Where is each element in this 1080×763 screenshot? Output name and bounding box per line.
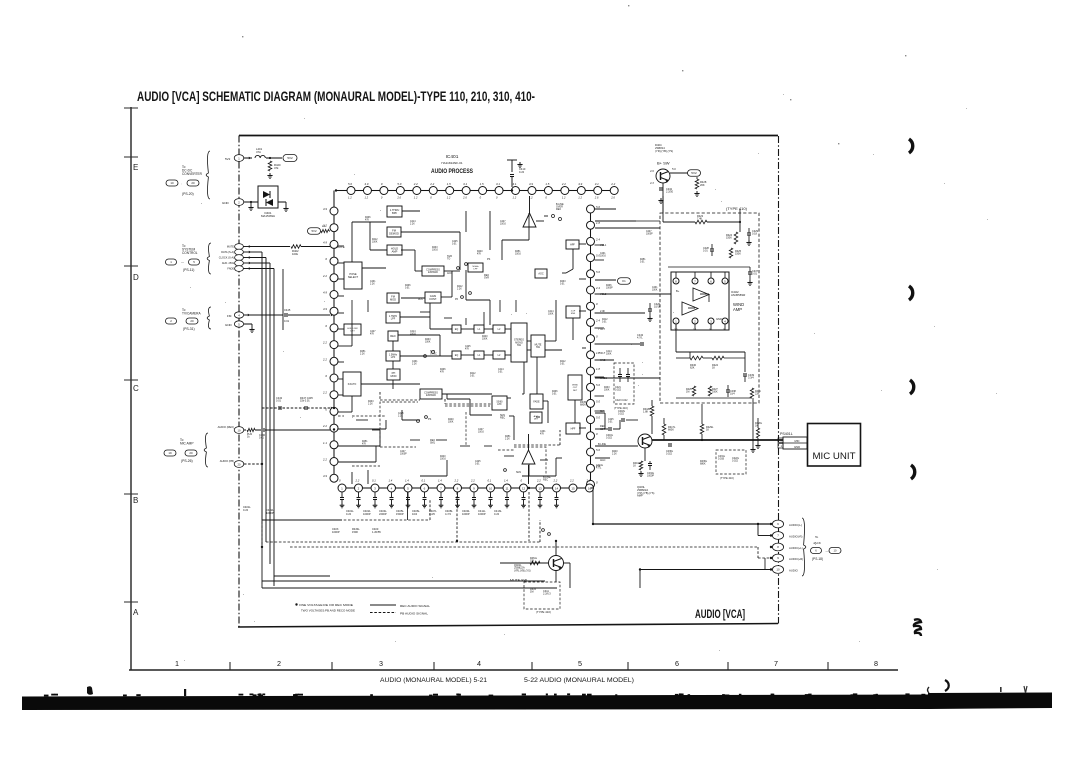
svg-text:0.22: 0.22 — [346, 512, 352, 516]
svg-text:2.2K: 2.2K — [612, 454, 617, 456]
svg-text:0: 0 — [596, 302, 598, 306]
svg-text:2.2: 2.2 — [610, 182, 615, 186]
svg-text:1: 1 — [175, 659, 179, 668]
svg-text:100K: 100K — [372, 242, 378, 244]
svg-text:1K: 1K — [706, 429, 709, 432]
svg-text:0: 0 — [596, 335, 598, 339]
svg-text:AUD. 256k: AUD. 256k — [222, 262, 235, 265]
svg-text:VCL2: VCL2 — [600, 293, 607, 296]
svg-text:5-22 AUDIO (MONAURAL MODEL): 5-22 AUDIO (MONAURAL MODEL) — [524, 677, 634, 684]
svg-text:REC AUDIO SIGNAL: REC AUDIO SIGNAL — [400, 604, 430, 608]
svg-text:TO: TO — [447, 258, 450, 261]
svg-text:150K: 150K — [352, 530, 358, 534]
svg-text:Y RLT: Y RLT — [598, 351, 606, 355]
svg-text:AGC: AGC — [538, 272, 543, 275]
svg-text:1500P: 1500P — [396, 512, 404, 516]
svg-text:1.2: 1.2 — [513, 196, 517, 200]
svg-text:10: 10 — [489, 486, 493, 490]
svg-text:DET: DET — [534, 419, 539, 421]
svg-text:0.01: 0.01 — [498, 372, 503, 374]
svg-text:2.4: 2.4 — [595, 237, 600, 241]
svg-text:680K: 680K — [700, 463, 706, 466]
svg-text:2.2K: 2.2K — [505, 439, 510, 441]
svg-text:0: 0 — [496, 196, 498, 200]
svg-text:10/4: 10/4 — [730, 393, 735, 396]
svg-text:47k: 47k — [274, 166, 279, 170]
svg-text:2.2: 2.2 — [470, 479, 475, 483]
svg-text:C422 0.022: C422 0.022 — [615, 399, 628, 402]
svg-text:AUDIO (MONAURAL MODEL) 5-21: AUDIO (MONAURAL MODEL) 5-21 — [380, 677, 487, 684]
svg-text:5V2: 5V2 — [691, 171, 697, 175]
svg-text:0.01: 0.01 — [703, 250, 708, 253]
svg-text:C: C — [133, 384, 139, 393]
svg-text:10/16: 10/16 — [478, 432, 484, 434]
svg-text:100K: 100K — [425, 342, 431, 344]
svg-text:0: 0 — [325, 374, 327, 378]
svg-text:EQ: EQ — [455, 328, 459, 331]
svg-text:AGC: AGC — [600, 459, 606, 462]
svg-text:—: — — [181, 261, 184, 265]
svg-text:150K: 150K — [726, 237, 732, 240]
svg-text:2.2: 2.2 — [322, 424, 327, 428]
svg-text:13: 13 — [538, 486, 542, 490]
svg-text:4.9: 4.9 — [578, 182, 582, 186]
svg-text:SVR: SVR — [484, 277, 489, 280]
svg-text:0.01: 0.01 — [405, 288, 410, 290]
svg-text:2.2K: 2.2K — [457, 289, 462, 291]
svg-text:47K: 47K — [465, 349, 470, 351]
svg-text:100k: 100k — [292, 252, 299, 256]
svg-text:TWO VOLTAGES:PB AND RECO MODE: TWO VOLTAGES:PB AND RECO MODE — [301, 609, 355, 613]
svg-text:4.9: 4.9 — [323, 291, 327, 295]
svg-text:0.1: 0.1 — [372, 479, 376, 483]
svg-text:MUTE: MUTE — [227, 246, 234, 249]
svg-text:5.0: 5.0 — [596, 416, 600, 420]
svg-text:IC401: IC401 — [446, 154, 459, 160]
svg-text:10/16: 10/16 — [410, 334, 416, 336]
svg-text:100K: 100K — [652, 290, 658, 292]
svg-text:47K: 47K — [365, 220, 370, 222]
svg-text:5.0: 5.0 — [596, 448, 600, 452]
svg-text:1K: 1K — [712, 367, 715, 370]
svg-text:2200P: 2200P — [379, 512, 387, 516]
svg-text:2.2: 2.2 — [413, 182, 418, 186]
svg-text:4.9: 4.9 — [364, 182, 368, 186]
svg-text:3.1: 3.1 — [463, 182, 467, 186]
svg-text:4.7/L: 4.7/L — [637, 337, 643, 340]
svg-text:4.9: 4.9 — [323, 207, 327, 211]
svg-text:FM: FM — [227, 314, 232, 318]
svg-text:1000P: 1000P — [462, 512, 470, 516]
svg-text:0: 0 — [325, 407, 327, 411]
svg-text:4: 4 — [238, 313, 240, 317]
svg-text:0.22: 0.22 — [243, 508, 249, 512]
svg-text:1.2: 1.2 — [348, 196, 352, 200]
svg-text:BPF: BPF — [392, 211, 398, 215]
svg-text:62K: 62K — [690, 367, 695, 370]
svg-text:14: 14 — [555, 486, 559, 490]
svg-text:4.7/L: 4.7/L — [596, 467, 602, 470]
svg-text:REC: REC — [543, 479, 548, 482]
svg-text:DEMOD: DEMOD — [389, 231, 399, 235]
svg-text:2.2: 2.2 — [322, 274, 327, 278]
svg-text:0: 0 — [339, 479, 341, 483]
svg-text:VCL1: VCL1 — [600, 244, 607, 247]
svg-text:P6: P6 — [455, 298, 459, 301]
svg-text:AN4558SR: AN4558SR — [731, 293, 745, 297]
svg-text:10/16: 10/16 — [600, 256, 606, 258]
svg-text:2.2K: 2.2K — [360, 354, 365, 356]
svg-text:2.2: 2.2 — [553, 479, 558, 483]
svg-text:19: 19 — [168, 451, 172, 455]
svg-text:5V2: 5V2 — [311, 229, 316, 233]
svg-text:20K: 20K — [700, 183, 705, 187]
svg-text:10/4: 10/4 — [412, 512, 418, 516]
svg-text:4.9: 4.9 — [323, 307, 327, 311]
svg-text:CONT.: CONT. — [429, 297, 437, 301]
svg-text:10/16: 10/16 — [432, 250, 438, 252]
svg-text:0.01: 0.01 — [560, 284, 565, 286]
svg-text:20: 20 — [190, 319, 194, 323]
svg-text:LPF: LPF — [391, 356, 396, 359]
svg-text:GND: GND — [794, 445, 800, 449]
svg-text:AMP: AMP — [637, 494, 643, 498]
svg-text:(TYPE 410): (TYPE 410) — [726, 206, 748, 211]
svg-text:PS: PS — [487, 258, 491, 261]
svg-text:AMP: AMP — [392, 249, 398, 253]
svg-text:0.01: 0.01 — [284, 319, 290, 323]
svg-text:4.9: 4.9 — [650, 169, 654, 173]
svg-text:DATA (S-A): DATA (S-A) — [221, 251, 234, 254]
svg-text:0.01: 0.01 — [552, 394, 557, 396]
svg-text:5V2: 5V2 — [225, 157, 231, 161]
svg-text:AUDIO: AUDIO — [789, 569, 798, 573]
svg-text:5: 5 — [578, 659, 582, 668]
svg-text:0.01: 0.01 — [608, 422, 613, 424]
svg-text:PB AUDIO SIGNAL: PB AUDIO SIGNAL — [400, 612, 428, 616]
svg-text:1.8: 1.8 — [596, 367, 600, 371]
svg-text:4: 4 — [477, 659, 481, 668]
svg-text:2: 2 — [277, 659, 281, 668]
svg-text:(YR),(YB),(YS): (YR),(YB),(YS) — [655, 149, 673, 153]
svg-text:5: 5 — [238, 322, 240, 326]
svg-text:15k 0.01: 15k 0.01 — [300, 400, 310, 403]
svg-text:2.4: 2.4 — [595, 286, 600, 290]
svg-text:(PS-18): (PS-18) — [812, 557, 823, 561]
svg-text:1.1: 1.1 — [323, 441, 327, 445]
svg-text:0.01: 0.01 — [475, 464, 480, 466]
svg-text:0.022: 0.022 — [666, 453, 673, 456]
svg-text:REC: REC — [390, 334, 396, 338]
svg-text:10: 10 — [776, 568, 780, 572]
svg-text:100K: 100K — [448, 422, 454, 424]
svg-text:SELECT: SELECT — [348, 275, 359, 279]
svg-text:1000P: 1000P — [332, 530, 340, 534]
svg-text:0.22: 0.22 — [494, 512, 500, 516]
svg-text:7.4K: 7.4K — [697, 218, 702, 221]
svg-text:2.2: 2.2 — [561, 182, 566, 186]
svg-text:0.01: 0.01 — [452, 244, 457, 246]
svg-text:47K: 47K — [477, 254, 482, 256]
svg-text:3.3/4: 3.3/4 — [748, 377, 754, 380]
svg-text:1.4: 1.4 — [389, 479, 393, 483]
svg-text:0: 0 — [325, 324, 327, 328]
svg-text:MA150WA: MA150WA — [261, 214, 275, 218]
svg-text:GND: GND — [222, 201, 230, 205]
svg-text:1k: 1k — [247, 436, 250, 439]
svg-text:0.1: 0.1 — [422, 479, 426, 483]
svg-text:150K: 150K — [735, 253, 741, 256]
svg-text:To: To — [815, 535, 819, 539]
svg-text:K1: K1 — [622, 279, 626, 283]
svg-text:D: D — [133, 273, 139, 282]
svg-text:2.6: 2.6 — [396, 196, 401, 200]
svg-text:0.01: 0.01 — [560, 364, 565, 366]
svg-text:(TYPE 410): (TYPE 410) — [536, 610, 551, 614]
svg-text:GNB1: GNB1 — [600, 377, 607, 380]
svg-text:(PS-26): (PS-26) — [181, 459, 193, 463]
svg-text:MIC UNIT: MIC UNIT — [813, 451, 857, 461]
svg-text:2.2: 2.2 — [454, 479, 459, 483]
svg-text:100K: 100K — [482, 339, 488, 341]
svg-text:2.2: 2.2 — [673, 329, 678, 332]
svg-text:22K: 22K — [755, 393, 760, 396]
svg-text:LPF: LPF — [473, 269, 478, 271]
svg-text:2.2: 2.2 — [569, 479, 574, 483]
svg-text:REC: REC — [556, 208, 561, 211]
svg-text:2.2: 2.2 — [586, 479, 591, 483]
svg-text:20: 20 — [189, 451, 193, 455]
svg-text:AUDIO(+R): AUDIO(+R) — [789, 557, 803, 561]
svg-text:SM1: SM1 — [516, 471, 522, 474]
svg-text:1.4: 1.4 — [438, 479, 442, 483]
svg-text:4.3: 4.3 — [650, 181, 654, 185]
svg-text:B+ SW: B+ SW — [657, 161, 670, 166]
svg-text:1000P: 1000P — [266, 511, 274, 515]
svg-text:,: , — [181, 181, 182, 185]
svg-text:1000P: 1000P — [400, 454, 407, 456]
svg-text:0: 0 — [381, 196, 383, 200]
svg-text:10/16: 10/16 — [440, 459, 446, 461]
svg-text:(TYPE 410): (TYPE 410) — [720, 476, 734, 480]
svg-text:B+: B+ — [676, 289, 680, 293]
svg-text:0.022: 0.022 — [606, 437, 613, 440]
svg-text:A: A — [133, 608, 139, 617]
svg-text:2.2/6.3: 2.2/6.3 — [543, 593, 551, 596]
svg-text:AUDIO [VCA]: AUDIO [VCA] — [695, 607, 745, 621]
svg-text:100K: 100K — [712, 391, 718, 394]
svg-text:C445: C445 — [284, 308, 291, 312]
svg-text:0: 0 — [596, 480, 598, 484]
svg-text:2.2: 2.2 — [536, 479, 541, 483]
svg-text:1000P: 1000P — [363, 512, 371, 516]
svg-text:AUDIO(-L): AUDIO(-L) — [789, 523, 802, 527]
svg-text:PS: PS — [428, 418, 432, 421]
svg-text:0: 0 — [545, 196, 547, 200]
svg-text:EQ: EQ — [455, 354, 459, 357]
svg-text:3.1: 3.1 — [513, 182, 517, 186]
svg-text:10: 10 — [170, 181, 174, 185]
svg-text:SM1: SM1 — [430, 442, 436, 445]
svg-text:AUDIO (REC): AUDIO (REC) — [218, 425, 234, 429]
svg-text:2.2K: 2.2K — [410, 224, 415, 226]
svg-text:0.01: 0.01 — [276, 400, 281, 403]
svg-text:DET: DET — [350, 331, 355, 333]
svg-text:0: 0 — [480, 196, 482, 200]
svg-text:1.2: 1.2 — [578, 196, 582, 200]
svg-text:AUDIO(-R): AUDIO(-R) — [789, 535, 803, 539]
svg-text:47A: 47A — [256, 150, 261, 154]
svg-text:5.0: 5.0 — [596, 205, 600, 209]
svg-text:0.022: 0.022 — [618, 413, 625, 416]
svg-text:2.2K: 2.2K — [368, 404, 373, 406]
svg-text:2.2: 2.2 — [322, 458, 327, 462]
svg-text:PS401L: PS401L — [780, 432, 793, 436]
svg-text:MIC AMP: MIC AMP — [180, 441, 193, 445]
svg-text:1.4: 1.4 — [405, 479, 409, 483]
svg-text:1.8: 1.8 — [596, 221, 600, 225]
svg-text:2.2: 2.2 — [429, 182, 434, 186]
svg-text:0.18: 0.18 — [752, 233, 757, 236]
svg-text:0: 0 — [381, 182, 383, 186]
svg-text:1.4: 1.4 — [504, 479, 508, 483]
svg-text:8: 8 — [874, 659, 878, 668]
svg-text:LPF: LPF — [391, 318, 396, 321]
svg-text:2.2: 2.2 — [322, 357, 327, 361]
svg-text:0: 0 — [596, 432, 598, 436]
svg-text:0.01: 0.01 — [470, 376, 475, 378]
svg-text:1000P: 1000P — [647, 475, 654, 478]
svg-text:4.9: 4.9 — [529, 182, 533, 186]
svg-text:CLOCK (S-A): CLOCK (S-A) — [219, 257, 234, 260]
svg-text:AMP: AMP — [733, 307, 742, 312]
svg-text:1.2: 1.2 — [364, 196, 368, 200]
svg-text:20: 20 — [191, 181, 195, 185]
svg-text:HPF: HPF — [570, 243, 575, 246]
svg-text:3.1: 3.1 — [496, 182, 500, 186]
svg-text:10/16: 10/16 — [515, 254, 521, 256]
svg-text:SNK: SNK — [571, 313, 576, 315]
svg-text:0.1: 0.1 — [488, 479, 492, 483]
svg-text:MOD: MOD — [390, 297, 396, 301]
svg-text:EXPAND: EXPAND — [426, 394, 436, 397]
svg-text:LPF: LPF — [497, 403, 502, 406]
svg-text:2.2K: 2.2K — [412, 364, 417, 366]
svg-text:AUDIO [VCA] SCHEMATIC DIAGRAM: AUDIO [VCA] SCHEMATIC DIAGRAM (MONAURAL … — [137, 89, 535, 104]
svg-text:10/16: 10/16 — [500, 224, 506, 226]
svg-text:DET: DET — [573, 390, 578, 392]
svg-text:EXPAND: EXPAND — [428, 271, 438, 274]
svg-text:100K: 100K — [548, 314, 554, 316]
svg-text:2.2K: 2.2K — [370, 284, 375, 286]
svg-text:1M: 1M — [686, 391, 689, 394]
svg-text:1.2: 1.2 — [414, 196, 418, 200]
svg-text:1.2: 1.2 — [562, 196, 566, 200]
svg-text:(PS-20): (PS-20) — [182, 192, 194, 196]
svg-text:5.0: 5.0 — [596, 270, 600, 274]
svg-text:1000P: 1000P — [606, 288, 613, 290]
svg-text:47K: 47K — [362, 444, 367, 446]
svg-text:CONTROL: CONTROL — [182, 251, 198, 255]
svg-text:2.6: 2.6 — [610, 196, 615, 200]
svg-text:5.0: 5.0 — [348, 182, 352, 186]
svg-text:ACC: ACC — [447, 272, 452, 275]
svg-text:2.4: 2.4 — [595, 318, 600, 322]
svg-text:CONVERTER: CONVERTER — [182, 172, 203, 176]
svg-text:3: 3 — [379, 659, 383, 668]
svg-text:2.2/50: 2.2/50 — [666, 191, 674, 194]
svg-text:1000P: 1000P — [646, 234, 653, 236]
svg-text:2.2/6: 2.2/6 — [429, 512, 435, 516]
svg-text:Y RLT: Y RLT — [598, 328, 605, 331]
svg-text:5.0: 5.0 — [596, 399, 600, 403]
svg-text:3.1: 3.1 — [595, 182, 599, 186]
svg-text:0.22: 0.22 — [519, 170, 525, 174]
svg-text:GND: GND — [716, 317, 722, 321]
svg-text:FADE: FADE — [533, 400, 540, 403]
svg-text:ACC: ACC — [418, 298, 423, 301]
svg-text:ONE VOLTAGE:RE OR REC MODE: ONE VOLTAGE:RE OR REC MODE — [299, 603, 353, 607]
svg-text:1.5: 1.5 — [545, 182, 549, 186]
svg-text:1.5: 1.5 — [447, 182, 451, 186]
svg-text:2.2: 2.2 — [322, 341, 327, 345]
svg-text:MIC: MIC — [794, 439, 799, 443]
svg-text:660K: 660K — [668, 429, 674, 432]
svg-text:2.2K: 2.2K — [398, 416, 403, 418]
svg-text:AUDIO (PB): AUDIO (PB) — [220, 459, 234, 463]
svg-text:0.01: 0.01 — [752, 273, 757, 276]
svg-text:1.2: 1.2 — [447, 196, 451, 200]
svg-text:0.022: 0.022 — [732, 460, 739, 463]
svg-text:E: E — [133, 163, 138, 172]
svg-text:0.01: 0.01 — [602, 322, 607, 324]
svg-text:47K: 47K — [440, 372, 445, 374]
svg-text:6: 6 — [675, 659, 679, 668]
svg-text:2.6: 2.6 — [462, 196, 467, 200]
svg-text:TV/CAMERA: TV/CAMERA — [182, 311, 201, 315]
svg-text:JACK: JACK — [813, 541, 822, 545]
svg-text:(PS-11): (PS-11) — [183, 268, 194, 272]
svg-text:1000P: 1000P — [478, 512, 486, 516]
svg-text:1.8K: 1.8K — [643, 411, 648, 414]
svg-text:15K: 15K — [530, 560, 535, 563]
svg-text:47K: 47K — [540, 434, 545, 436]
svg-text:5V2: 5V2 — [287, 156, 293, 160]
svg-text:1K: 1K — [633, 465, 636, 468]
svg-text:REC: REC — [500, 417, 505, 420]
svg-text:2.2: 2.2 — [355, 479, 360, 483]
svg-text:2.2: 2.2 — [322, 391, 327, 395]
svg-text:0.022: 0.022 — [615, 389, 622, 392]
svg-text:680K: 680K — [580, 404, 586, 407]
svg-text:4.7/4: 4.7/4 — [445, 512, 451, 516]
svg-text:4.9: 4.9 — [323, 240, 327, 244]
svg-text:2.6: 2.6 — [594, 196, 599, 200]
svg-text:HPF: HPF — [571, 427, 576, 430]
svg-text:5.6: 5.6 — [672, 167, 676, 171]
svg-text:MOD: MOD — [390, 374, 396, 378]
svg-text:1.5: 1.5 — [480, 182, 484, 186]
svg-text:1: 1 — [781, 444, 783, 448]
svg-text:AUDIO PROCESS: AUDIO PROCESS — [431, 169, 473, 175]
svg-text:(PS-31): (PS-31) — [183, 327, 195, 331]
svg-text:100K: 100K — [604, 390, 610, 392]
svg-text:0: 0 — [430, 196, 432, 200]
svg-text:0: 0 — [325, 257, 327, 261]
svg-text:15: 15 — [571, 486, 575, 490]
svg-text:GND: GND — [225, 323, 233, 327]
svg-text:7: 7 — [774, 659, 778, 668]
